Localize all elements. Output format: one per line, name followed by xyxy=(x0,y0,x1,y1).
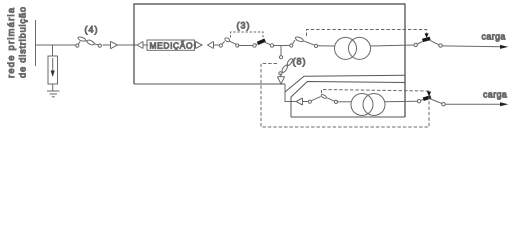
substation enclosure xyxy=(134,4,405,117)
load wire lower xyxy=(445,103,502,105)
metering box MEDIÇÃO xyxy=(147,40,195,51)
fuse cutout (4) xyxy=(76,36,102,47)
disconnect switch upper bay xyxy=(290,36,318,47)
wire xyxy=(193,44,196,46)
cable termination box entry xyxy=(137,42,143,49)
node: bay junction xyxy=(280,46,282,57)
LV breaker upper xyxy=(414,37,442,48)
svg-text:carga: carga xyxy=(483,90,507,100)
rede primária de distribuição label xyxy=(6,7,28,78)
wire xyxy=(274,45,290,47)
disconnect switch (3) xyxy=(219,37,239,47)
load arrow upper xyxy=(500,45,508,49)
cable termination return xyxy=(208,42,214,49)
cable termination lower xyxy=(296,98,308,105)
interlock arrow lower xyxy=(427,92,431,97)
wire: cutout to termination xyxy=(103,44,111,46)
primary distribution bus xyxy=(35,20,37,66)
svg-text:rede primária: rede primária xyxy=(6,7,16,78)
svg-text:(8): (8) xyxy=(293,56,307,66)
surge arrester xyxy=(48,56,58,84)
ground xyxy=(47,91,60,97)
load arrow lower xyxy=(500,102,508,106)
wire: bus to fuse cutout xyxy=(36,44,77,46)
dashed bracket (3) xyxy=(231,32,264,40)
svg-text:MEDIÇÃO: MEDIÇÃO xyxy=(150,41,193,51)
feeder wire lower xyxy=(285,84,296,102)
wire xyxy=(337,101,351,103)
wire: arrester tap xyxy=(52,45,54,56)
cable termination down xyxy=(277,74,284,84)
transformer T1 xyxy=(335,37,371,59)
optional bay dashed boundary xyxy=(261,64,429,128)
load wire upper xyxy=(442,45,502,48)
wire xyxy=(238,45,253,47)
wire xyxy=(317,45,334,47)
interlock dashed upper xyxy=(307,30,427,37)
wire xyxy=(214,44,220,46)
cable termination incoming xyxy=(111,41,118,48)
svg-text:carga: carga xyxy=(482,32,506,42)
interlock arrow upper xyxy=(425,33,429,38)
transformer T2 xyxy=(351,94,385,116)
wire: termination to enclosure xyxy=(118,44,138,46)
arrester arrow xyxy=(51,58,55,77)
circuit breaker (3) xyxy=(253,39,274,48)
cable termination metering out xyxy=(196,42,203,49)
disconnect switch lower bay xyxy=(308,94,337,104)
wire: T2 out xyxy=(385,100,417,103)
fuse switch (8) xyxy=(279,56,294,75)
wire: arrester to ground xyxy=(52,84,54,91)
svg-text:(4): (4) xyxy=(85,25,99,35)
lower compartment xyxy=(291,82,405,118)
LV breaker lower xyxy=(417,95,445,106)
wire: T1 to box edge xyxy=(371,45,415,46)
svg-text:de distribuição: de distribuição xyxy=(18,7,28,78)
wire xyxy=(143,44,148,46)
svg-text:(3): (3) xyxy=(237,20,251,30)
enclosure bottom edge xyxy=(134,75,405,92)
